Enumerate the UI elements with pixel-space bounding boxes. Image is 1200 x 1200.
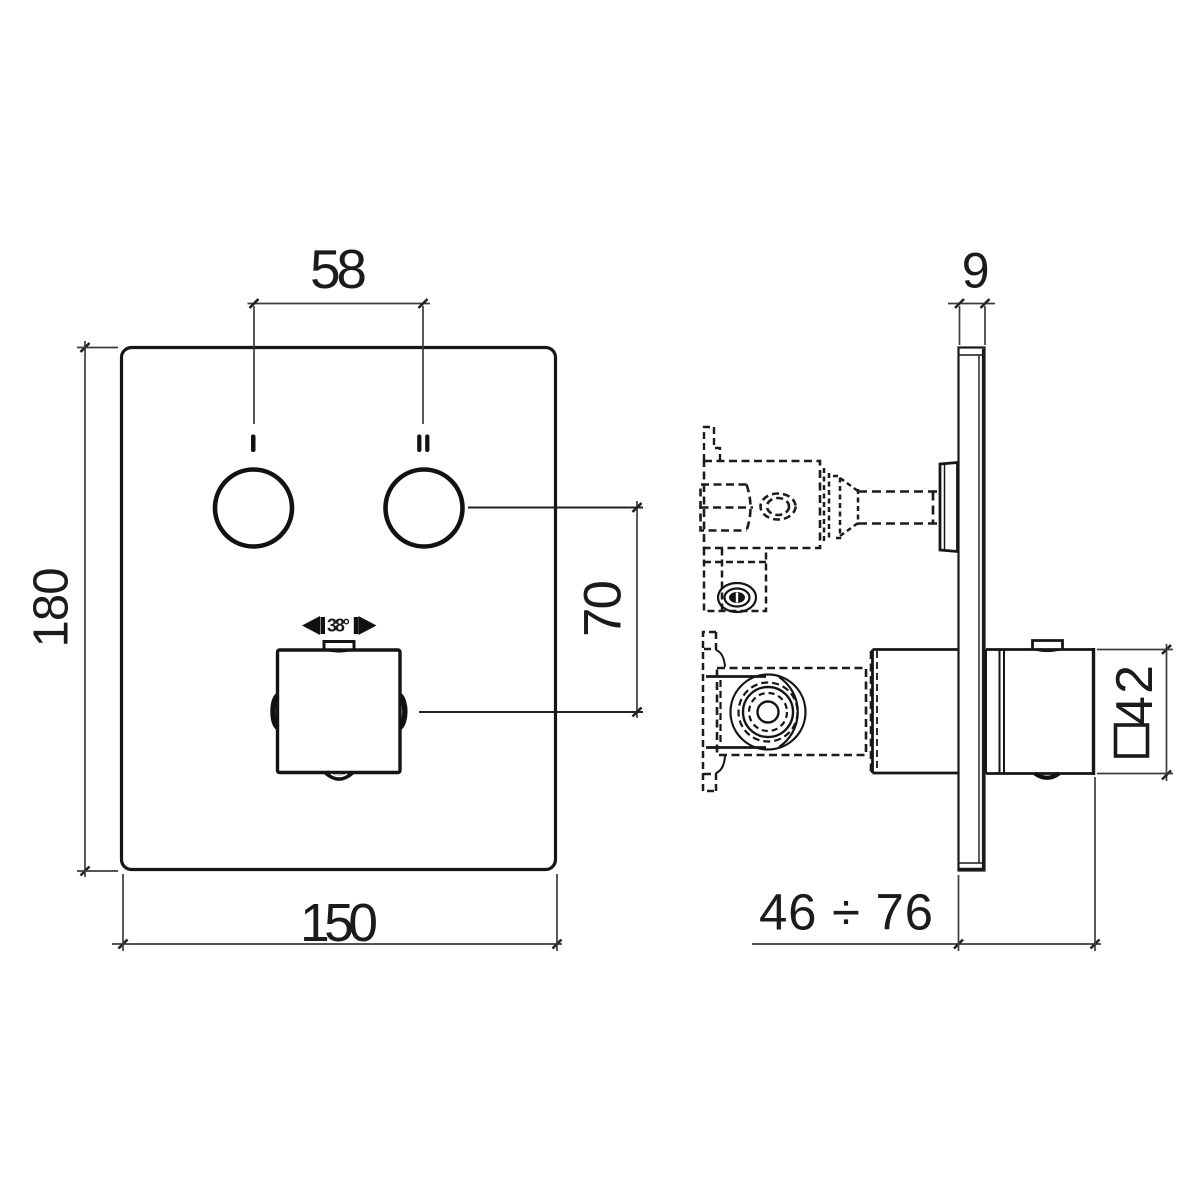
knob top tab <box>324 642 354 652</box>
upper body lower block (dashed) <box>704 549 766 612</box>
dimension 9 (plate thickness) <box>948 243 995 346</box>
leader from button II <box>468 507 643 509</box>
knob side top tab <box>1033 641 1063 652</box>
lower body mounting bracket (dashed) <box>703 632 716 791</box>
dimension 70 (button to knob) <box>574 501 642 718</box>
svg-text:70: 70 <box>574 580 633 637</box>
knob left grip notch <box>273 696 278 728</box>
knob side bottom tab <box>1035 774 1059 778</box>
temperature knob square <box>278 650 401 773</box>
upper body top mounting tab <box>704 427 720 461</box>
lower body concentric ports <box>731 675 806 750</box>
dimension 150 (plate width) <box>112 874 562 953</box>
button I mark <box>251 435 256 453</box>
lower bracket flange arms (solid) <box>706 650 766 773</box>
button II mark <box>417 435 429 453</box>
button I circle <box>215 470 292 547</box>
plate side (vertical bar) <box>959 348 985 871</box>
dimension 180 (plate height) <box>25 341 119 877</box>
dimension 58 (button spacing) <box>248 238 431 424</box>
svg-text:58: 58 <box>310 238 367 300</box>
38 degree safety-stop symbol <box>302 616 377 636</box>
svg-text:46 ÷ 76: 46 ÷ 76 <box>759 884 933 941</box>
spindle wall mount (solid) <box>940 463 958 552</box>
dimension square-42 (knob size) <box>1097 644 1173 781</box>
lower block port rings <box>718 583 756 612</box>
upper body cartridge cylinder (dashed) <box>701 485 754 531</box>
svg-text:9: 9 <box>962 243 990 299</box>
plate front (150x180 wall plate) <box>122 348 556 870</box>
valve spindle (dashed) <box>858 492 941 524</box>
svg-text:150: 150 <box>300 894 378 953</box>
upper body threaded end (dashed) <box>824 468 858 544</box>
leader from knob <box>419 711 643 713</box>
dimension 46-76 (installation depth) <box>752 777 1101 951</box>
svg-text:38°: 38° <box>327 616 350 636</box>
upper valve body (hidden, dashed) <box>704 461 820 548</box>
knob side view <box>986 648 1094 775</box>
mixer housing (solid box behind plate) <box>873 650 958 774</box>
knob right grip notch <box>400 696 405 728</box>
knob bottom grip notch <box>326 773 352 779</box>
upper body oval port (dashed) <box>761 494 796 520</box>
svg-text:180: 180 <box>25 568 79 648</box>
button II circle <box>386 470 463 547</box>
lower valve body box (dashed) <box>717 651 871 772</box>
